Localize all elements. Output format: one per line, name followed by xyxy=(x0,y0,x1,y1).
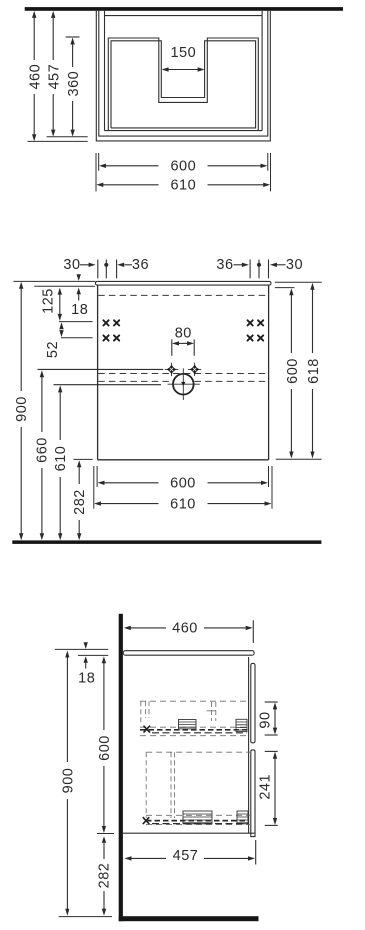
svg-text:610: 610 xyxy=(170,178,196,194)
extension line top surface left (front) xyxy=(14,280,96,282)
dimension 18 (front) xyxy=(71,274,88,318)
wall (side) xyxy=(119,614,123,921)
dimension 457 (side) xyxy=(125,840,256,865)
upper drawer slide rail (side) xyxy=(140,719,247,733)
extension line cabinet bottom left (front) xyxy=(74,458,93,460)
extension verticals below plan xyxy=(96,153,271,191)
floor (front) xyxy=(12,540,321,544)
screw holes x-marks left (front) xyxy=(103,320,119,340)
top panel (side) xyxy=(123,651,254,656)
countertop outline (plan) xyxy=(96,11,270,141)
svg-text:150: 150 xyxy=(170,45,196,61)
svg-text:600: 600 xyxy=(170,476,196,492)
carcass inner (plan) xyxy=(105,11,263,131)
hidden edge dashed under top (front) xyxy=(98,294,268,296)
svg-text:18: 18 xyxy=(78,670,95,686)
svg-text:30: 30 xyxy=(63,257,80,273)
drain hole circle xyxy=(168,368,200,400)
svg-text:900: 900 xyxy=(60,768,76,794)
dimension 600 (plan width) xyxy=(99,159,268,175)
extension verticals below cabinet (front) xyxy=(94,466,272,509)
dimension 460 (side) xyxy=(124,620,254,643)
dimension 18 (side) xyxy=(78,642,95,686)
svg-text:125: 125 xyxy=(41,288,57,314)
svg-text:457: 457 xyxy=(46,64,62,90)
extension line floor (side) xyxy=(59,916,112,918)
extension line hole row1 (front) xyxy=(59,321,93,323)
dimension 80 (faucet holes) xyxy=(172,326,194,356)
wall (plan) xyxy=(25,7,343,11)
dimension 36 right (text+arrow) xyxy=(216,257,248,273)
dimension 610 (plan countertop width) xyxy=(96,178,270,194)
marker dot right xyxy=(257,263,261,267)
svg-text:460: 460 xyxy=(27,64,43,90)
svg-text:36: 36 xyxy=(216,257,233,273)
dimension 30 left (text+arrow) xyxy=(63,257,95,273)
svg-text:18: 18 xyxy=(71,302,88,318)
dimension 460 (plan depth) xyxy=(27,11,43,141)
svg-text:457: 457 xyxy=(173,848,199,864)
svg-text:660: 660 xyxy=(35,437,51,463)
svg-text:600: 600 xyxy=(170,159,196,175)
svg-text:618: 618 xyxy=(306,358,322,384)
svg-text:610: 610 xyxy=(170,496,196,512)
lower drawer front (side) xyxy=(251,750,255,837)
drawer gap line upper (front, with left extension) xyxy=(38,368,164,370)
svg-text:36: 36 xyxy=(132,257,149,273)
svg-text:30: 30 xyxy=(286,257,303,273)
faucet hole marker right xyxy=(188,363,201,376)
hole-position ticks left (front) xyxy=(98,260,117,279)
dimension 618 right (front) xyxy=(306,283,322,459)
svg-text:610: 610 xyxy=(53,446,69,472)
svg-text:241: 241 xyxy=(258,774,274,800)
svg-text:52: 52 xyxy=(45,341,61,358)
extension line at carcass front (plan) xyxy=(47,136,88,138)
svg-text:90: 90 xyxy=(258,711,274,728)
dimension 30 right (text+arrow) xyxy=(270,257,303,273)
extension line cabinet bottom right (front) xyxy=(276,458,322,460)
dimension 125 (front) xyxy=(41,288,62,321)
svg-text:282: 282 xyxy=(72,489,88,515)
carcass outer (plan) xyxy=(99,11,268,136)
extension line top surface (side) xyxy=(55,648,109,650)
dimension 600 right (front) xyxy=(285,288,301,458)
hidden edge dashed mid upper (front) xyxy=(98,373,268,375)
floor (side) xyxy=(119,916,259,921)
dimension 600 bottom (front) xyxy=(98,476,269,492)
dimension 282 (front) xyxy=(72,460,88,540)
svg-text:600: 600 xyxy=(285,358,301,384)
extension line panel underside (side) xyxy=(78,654,108,656)
drawer gap line lower (front, with left extension) xyxy=(54,384,162,386)
cabinet top panel (front) xyxy=(95,281,271,285)
upper drawer front (side) xyxy=(251,663,255,742)
svg-text:282: 282 xyxy=(97,863,113,889)
upper drawer hidden internals (side) xyxy=(140,701,247,736)
dimension 900 (side) xyxy=(60,651,76,916)
dimension 610 bottom (front) xyxy=(94,496,272,512)
lower drawer slide rail (side) xyxy=(143,811,249,824)
svg-text:360: 360 xyxy=(66,71,82,97)
carcass bottom (side) xyxy=(123,832,255,834)
dimension 36 left (text+arrow) xyxy=(117,257,149,273)
basin outline outer with notch (plan) xyxy=(108,38,258,131)
dimension 610 left (front) xyxy=(53,385,69,540)
carcass sides and bottom (front) xyxy=(98,285,269,460)
dimension 282 (side) xyxy=(97,836,113,916)
screw holes x-marks right (front) xyxy=(248,320,264,340)
extension line panel underside right (front) xyxy=(275,287,295,289)
extension line at countertop front (plan) xyxy=(28,140,88,142)
faucet hole marker left xyxy=(165,363,178,376)
svg-text:600: 600 xyxy=(97,735,113,761)
dimension 241 (side) xyxy=(258,751,278,825)
extension line top surface right (front) xyxy=(275,281,322,283)
dimension 660 (front) xyxy=(35,370,51,540)
hidden edge dashed mid lower (front) xyxy=(98,380,268,382)
lower drawer hidden internals (side) xyxy=(146,752,251,824)
dimension 52 (front) xyxy=(45,322,64,358)
dimension 90 (side) xyxy=(258,702,278,735)
svg-text:460: 460 xyxy=(172,620,198,636)
svg-text:900: 900 xyxy=(14,396,30,422)
dimension 360 (basin depth) xyxy=(66,37,82,137)
dimension 600 (side) xyxy=(97,656,113,833)
marker dot left xyxy=(104,263,108,267)
dimension 900 (front) xyxy=(14,282,30,540)
hole-position ticks right (front) xyxy=(250,260,268,279)
extension line panel underside left (front) xyxy=(34,285,95,287)
carcass front edge (side) xyxy=(248,657,250,833)
svg-text:80: 80 xyxy=(175,326,192,342)
dimension 457 (plan carcass depth) xyxy=(46,11,62,137)
extension line cabinet bottom (side) xyxy=(97,833,114,835)
dimension 150 (notch width) xyxy=(162,45,205,71)
basin outline inner with notch (plan) xyxy=(111,41,256,128)
extension line hole row2 (front) xyxy=(61,337,93,339)
